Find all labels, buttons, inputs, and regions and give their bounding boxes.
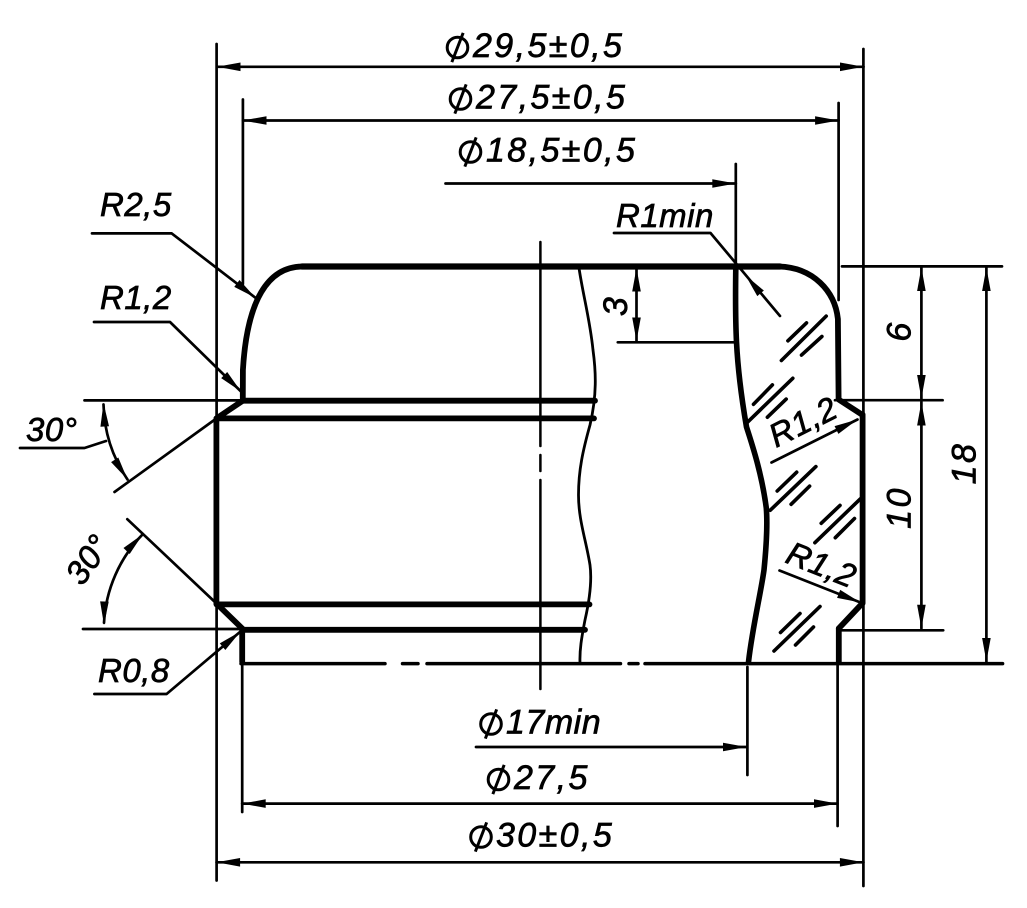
- leader R1,2 lower right: [780, 571, 863, 607]
- dimension Ø29,5±0,5: [217, 63, 864, 72]
- part outline: 30° chamfer top-left: [217, 401, 243, 419]
- svg-text:R0,8: R0,8: [98, 652, 170, 689]
- svg-text:18: 18: [946, 442, 984, 485]
- text Ø29,5±0,5: [447, 33, 468, 62]
- part outline: 30° chamfer top-right (notch): [839, 400, 863, 415]
- section cut edge (thick wavy, bore wall): [736, 267, 767, 662]
- 30° callout lower: arc with arrows: [100, 531, 146, 625]
- break line thin (section break): [579, 268, 596, 663]
- text Ø30±0,5: [471, 822, 492, 851]
- part outline: top surface: [302, 263, 780, 269]
- extension line right (Ø29,5 / Ø30): [862, 49, 865, 886]
- svg-text:R1,2: R1,2: [100, 279, 172, 316]
- 30° callout upper: chamfer extension: [115, 418, 217, 492]
- leader R1,2 left: [94, 322, 244, 395]
- 30° callout lower: chamfer extension: [127, 519, 216, 603]
- hatch cluster 3: [770, 467, 816, 511]
- dimension Ø27,5 bottom: [242, 799, 837, 808]
- part outline: upper step line 1: [243, 398, 595, 404]
- extension line Ø27,5 top-right: [837, 103, 840, 300]
- part outline: lower step line 2: [242, 627, 585, 633]
- hatch cluster 5: [774, 607, 820, 652]
- extension line top-right (6 / 18): [842, 265, 1002, 268]
- dimension Ø30±0,5: [217, 858, 864, 867]
- svg-text:30°: 30°: [26, 411, 77, 448]
- extension line left (Ø29,5 / Ø30): [215, 44, 218, 881]
- text Ø17min: [481, 709, 502, 738]
- extension line Ø27,5 bottom-right: [836, 664, 839, 826]
- part outline: 30° chamfer bottom-right: [839, 603, 863, 628]
- part outline: bottom face with centerline breaks: [241, 662, 1003, 666]
- svg-text:27,5: 27,5: [513, 759, 590, 797]
- part outline: body edge right: [860, 415, 866, 604]
- 30° callout upper: arc with arrows: [20, 403, 131, 482]
- svg-text:R1min: R1min: [616, 197, 714, 234]
- hatch cluster 1: [781, 316, 826, 360]
- leader R1min: [614, 233, 780, 316]
- part outline: top-left corner R2,5 and bead edge: [243, 267, 302, 399]
- dimension 18: [982, 268, 991, 662]
- dimension Ø18,5±0,5: [446, 179, 736, 188]
- extension line Ø17min: [746, 667, 749, 775]
- svg-text:3: 3: [597, 295, 635, 316]
- part outline: top-right corner and bead edge right: [779, 267, 839, 399]
- part outline: upper step line 2: [217, 415, 594, 421]
- extension line Ø27,5 bottom-left: [241, 664, 244, 812]
- extension line Ø27,5 top-left: [242, 100, 245, 285]
- dimension 10: [917, 402, 926, 628]
- text Ø27,5 bottom: [488, 765, 509, 794]
- extension line Ø18,5 right: [734, 164, 737, 263]
- 30° callout upper: reference line: [85, 399, 244, 402]
- svg-text:27,5±0,5: 27,5±0,5: [475, 79, 627, 117]
- hatch cluster 4: [815, 499, 861, 543]
- hatch cluster 2: [747, 378, 793, 423]
- text Ø18,5±0,5: [460, 137, 481, 166]
- part outline: flange edge right: [836, 628, 842, 662]
- extension line bottom-right (10): [841, 629, 944, 632]
- leader R1,2 upper right: [772, 416, 860, 463]
- part outline: body edge left: [213, 418, 219, 603]
- svg-text:17min: 17min: [506, 704, 601, 742]
- 30° callout lower: reference line: [83, 628, 242, 631]
- svg-text:10: 10: [881, 486, 919, 529]
- part outline: lower step line 1: [217, 602, 590, 608]
- dimension 3: [618, 268, 735, 342]
- dimension Ø17min: [476, 743, 747, 752]
- dimension 6: [917, 268, 926, 399]
- leader R0,8: [94, 628, 243, 694]
- extension line mid-right (6 / 10): [835, 399, 943, 402]
- text Ø27,5±0,5: [450, 84, 471, 113]
- centerline (vertical axis): [539, 242, 542, 689]
- svg-text:R2,5: R2,5: [100, 186, 172, 223]
- leader R2,5: [92, 233, 258, 301]
- svg-text:30±0,5: 30±0,5: [496, 817, 614, 855]
- part outline: 30° chamfer bottom-left: [216, 603, 242, 628]
- svg-text:6: 6: [881, 320, 919, 341]
- part outline: flange edge left: [239, 629, 245, 662]
- svg-text:29,5±0,5: 29,5±0,5: [472, 27, 624, 65]
- dimension Ø27,5±0,5 top: [243, 116, 839, 125]
- svg-text:18,5±0,5: 18,5±0,5: [486, 132, 637, 170]
